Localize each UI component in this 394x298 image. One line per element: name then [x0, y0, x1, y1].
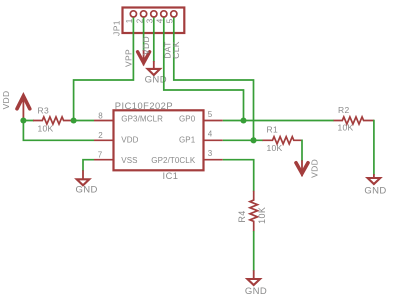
svg-text:10K: 10K [38, 124, 54, 134]
node DAT label [163, 41, 173, 58]
label JP1 [112, 20, 122, 36]
pin name VDD [121, 136, 138, 145]
svg-text:8: 8 [98, 111, 103, 120]
ground GND (R4) [245, 270, 267, 297]
pin 2 VDD stub [94, 139, 114, 141]
supply VDD symbol (left, pointing up) [17, 96, 30, 121]
pin number 5 (JP1) [166, 18, 175, 23]
node VDD label (pin2) [141, 36, 151, 55]
svg-text:R2: R2 [338, 105, 349, 115]
wire GP1 row (pin4 to R1) [223, 139, 263, 141]
wire VSS pin7 to ground [83, 160, 94, 171]
label PIC10F202P [115, 101, 173, 111]
svg-text:VDD: VDD [121, 136, 138, 145]
pin 8 GP3/MCLR stub [94, 120, 114, 122]
pin number 4 [208, 130, 213, 139]
label R2 [338, 105, 349, 115]
wire R4 to ground [253, 231, 255, 271]
svg-text:VDD: VDD [141, 36, 151, 55]
pin name GP3/MCLR [121, 114, 163, 123]
resistor R3 [33, 117, 72, 124]
svg-text:JP1: JP1 [112, 20, 122, 36]
svg-text:R3: R3 [38, 105, 49, 115]
pin name GP1 [179, 136, 196, 145]
wire GP0 row (pin5 to R2) [223, 120, 334, 122]
junction dot (DAT / GP0 row) [240, 117, 246, 123]
wire VPP net (pin1 to R3/pin8 junction) [74, 18, 134, 121]
junction dot (VDD rail / R3 left) [20, 117, 26, 123]
wire GND pin3 stub [153, 18, 155, 63]
node VDD label (right) [309, 159, 319, 178]
svg-text:GND: GND [245, 286, 267, 297]
svg-text:2: 2 [98, 131, 103, 140]
ground GND (IC pin7) [75, 170, 97, 195]
label R3 [38, 105, 49, 115]
label R4 [237, 210, 247, 222]
wire VDD rail to R3 and IC pin2 [23, 121, 94, 141]
svg-text:R1: R1 [267, 124, 278, 134]
svg-text:10K: 10K [257, 207, 267, 224]
wire R1 to VDD [301, 140, 303, 162]
pin number 5 [208, 110, 213, 119]
value 10K (R3) [38, 124, 54, 134]
svg-text:VDD: VDD [309, 159, 319, 178]
wire VDD pin2 stub [143, 18, 145, 52]
pin 4 GP1 stub [204, 139, 223, 141]
wire CLK net (pin5 to GP1 row) [174, 18, 254, 141]
value 10K (R1) [267, 143, 283, 153]
svg-text:GP0: GP0 [179, 114, 196, 123]
svg-text:5: 5 [166, 18, 175, 23]
svg-text:VDD: VDD [1, 91, 11, 110]
pin number 8 [98, 111, 103, 120]
pin number 2 (JP1) [135, 18, 144, 23]
supply VDD symbol (right of R1, pointing down) [296, 160, 308, 176]
junction dot (VPP / R3 right / pin8) [71, 117, 77, 123]
svg-text:IC1: IC1 [163, 171, 179, 181]
svg-text:VPP: VPP [123, 49, 133, 67]
connector JP1 body [123, 8, 185, 34]
svg-text:4: 4 [208, 130, 213, 139]
pin 5 GP0 stub [204, 120, 223, 122]
pin number 3 (JP1) [146, 18, 155, 23]
pin name GP2/T0CLK [151, 156, 196, 165]
node CLK label [171, 41, 181, 58]
svg-text:10K: 10K [267, 143, 283, 153]
svg-text:5: 5 [208, 110, 213, 119]
svg-text:GND: GND [364, 185, 386, 196]
svg-text:2: 2 [135, 18, 144, 23]
svg-text:3: 3 [146, 18, 155, 23]
svg-text:GP2/T0CLK: GP2/T0CLK [151, 156, 196, 165]
svg-text:VSS: VSS [121, 156, 137, 165]
pin name VSS [121, 156, 137, 165]
pin 7 VSS stub [94, 159, 114, 161]
resistor R4 (vertical) [250, 191, 258, 232]
svg-text:1: 1 [125, 18, 134, 23]
svg-text:GP1: GP1 [179, 136, 196, 145]
IC IC1 body (PIC10F202P) [114, 110, 204, 170]
ground GND (R2) [364, 174, 386, 196]
svg-text:4: 4 [156, 18, 165, 23]
ground GND (header pin3) [145, 61, 167, 86]
pin number 3 [208, 149, 213, 158]
node VDD label (left) [1, 91, 11, 110]
supply VDD symbol (pin2, pointing down) [138, 50, 150, 65]
svg-text:GND: GND [75, 185, 97, 196]
value 10K (R2) [338, 122, 354, 132]
pin number 2 [98, 131, 103, 140]
value 10K (R4) [257, 207, 267, 224]
junction dot (CLK / GP1 row) [250, 137, 256, 143]
svg-text:GP3/MCLR: GP3/MCLR [121, 114, 163, 123]
svg-text:3: 3 [208, 149, 213, 158]
label IC1 [163, 171, 179, 181]
label R1 [267, 124, 278, 134]
resistor R1 [263, 137, 303, 144]
pin number 7 [98, 151, 103, 160]
svg-text:PIC10F202P: PIC10F202P [115, 101, 173, 111]
pin 3 GP2/T0CLK stub [204, 159, 223, 161]
wire DAT net (pin4 to GP0 row) [164, 18, 244, 121]
pin number 4 (JP1) [156, 18, 165, 23]
svg-text:7: 7 [98, 151, 103, 160]
resistor R2 [334, 117, 374, 124]
pin name GP0 [179, 114, 196, 123]
node VPP label [123, 49, 133, 67]
svg-text:10K: 10K [338, 122, 354, 132]
svg-text:R4: R4 [237, 210, 247, 222]
svg-text:CLK: CLK [171, 41, 181, 58]
pin number 1 (JP1) [125, 18, 134, 23]
wire R2 to ground [373, 120, 375, 175]
wire GP2 row (pin3 to R4) [223, 160, 254, 192]
